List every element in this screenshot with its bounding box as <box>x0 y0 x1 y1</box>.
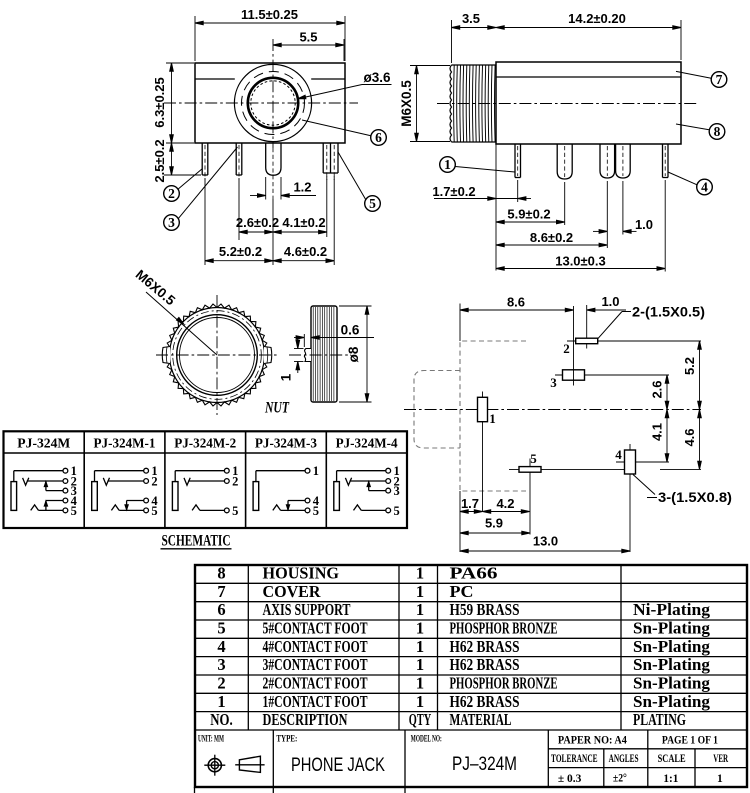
PJ-324M-4 jack schematic <box>334 464 400 518</box>
PJ-324M-2 jack schematic <box>172 464 238 518</box>
svg-text:PHOSPHOR BRONZE: PHOSPHOR BRONZE <box>450 674 558 693</box>
svg-text:PHOSPHOR BRONZE: PHOSPHOR BRONZE <box>450 619 558 638</box>
svg-text:6: 6 <box>217 600 225 619</box>
svg-text:2#CONTACT FOOT: 2#CONTACT FOOT <box>263 674 368 693</box>
front view: dimension 2.5±0.2 <box>152 139 201 182</box>
svg-text:NO.: NO. <box>210 710 232 729</box>
svg-text:±2°: ±2° <box>613 773 627 785</box>
svg-text:MODEL NO:: MODEL NO: <box>411 735 442 745</box>
svg-text:PJ-324M: PJ-324M <box>17 436 70 451</box>
BOM row 4: 4#CONTACT FOOT <box>217 637 710 656</box>
side view: dimension 13.0±0.3 <box>496 254 665 271</box>
side view: housing body <box>496 62 681 144</box>
svg-text:1: 1 <box>279 373 294 381</box>
front view: dimension 6.3±0.25 <box>152 63 194 143</box>
svg-text:1: 1 <box>416 600 424 619</box>
title block: first angle projection symbol <box>204 755 225 776</box>
svg-text:0.6: 0.6 <box>341 323 360 338</box>
svg-text:5: 5 <box>151 504 157 518</box>
side view: dimension 1.0 (pin gap) <box>593 217 653 233</box>
svg-text:2: 2 <box>563 341 570 356</box>
side view: centerline <box>437 103 697 105</box>
svg-text:14.2±0.20: 14.2±0.20 <box>568 11 626 26</box>
svg-text:PJ–324M: PJ–324M <box>452 754 517 775</box>
svg-text:1: 1 <box>416 692 424 711</box>
svg-text:TYPE:: TYPE: <box>276 735 297 745</box>
pcb layout: dimension 5.2 <box>682 341 701 410</box>
svg-text:PC: PC <box>450 582 474 601</box>
pcb layout: centerline <box>404 409 701 411</box>
svg-text:4.6: 4.6 <box>682 428 697 446</box>
pcb layout: dimension 2.6 <box>650 375 669 410</box>
svg-text:2.5±0.2: 2.5±0.2 <box>152 139 167 182</box>
pcb layout: dimension 13.0 <box>460 534 630 553</box>
title block: model cell PJ-324M <box>411 735 517 776</box>
nut front view: M6X0.5 label with leader <box>133 267 217 355</box>
svg-text:DESCRIPTION: DESCRIPTION <box>263 710 348 729</box>
svg-text:8: 8 <box>714 124 721 139</box>
front view: dimensions 2.6±0.2 and 4.1±0.2 <box>205 176 334 265</box>
svg-text:5: 5 <box>313 504 319 518</box>
svg-text:5.5: 5.5 <box>299 30 317 45</box>
front view: label ø3.6 with leader <box>298 70 392 99</box>
svg-text:3: 3 <box>217 655 225 674</box>
svg-text:2: 2 <box>217 674 225 693</box>
svg-text:± 0.3: ± 0.3 <box>558 773 582 785</box>
svg-text:11.5±0.25: 11.5±0.25 <box>241 7 298 22</box>
front view: centerlines <box>164 39 358 148</box>
svg-text:H59 BRASS: H59 BRASS <box>450 600 520 619</box>
svg-text:5.9±0.2: 5.9±0.2 <box>507 207 550 222</box>
svg-text:5.9: 5.9 <box>485 516 503 531</box>
svg-text:MATERIAL: MATERIAL <box>450 710 512 729</box>
title block: view cone symbol <box>235 756 264 772</box>
side view: balloon 1 (1#contact foot) <box>440 157 515 173</box>
svg-text:PHONE JACK: PHONE JACK <box>291 755 385 776</box>
pcb layout: pad 3 <box>550 306 669 390</box>
svg-text:1: 1 <box>416 564 424 583</box>
svg-text:QTY: QTY <box>409 710 431 729</box>
svg-text:5: 5 <box>71 504 77 518</box>
svg-text:2: 2 <box>232 475 238 489</box>
BOM table grid <box>195 565 747 787</box>
svg-text:2.6±0.2: 2.6±0.2 <box>236 215 279 230</box>
svg-text:PJ-324M-1: PJ-324M-1 <box>94 436 156 451</box>
svg-text:Sn-Plating: Sn-Plating <box>633 655 711 674</box>
svg-text:PJ-324M-3: PJ-324M-3 <box>255 436 317 451</box>
side view: dimension M6X0.5 <box>399 66 450 142</box>
svg-text:COVER: COVER <box>263 582 322 601</box>
svg-text:4: 4 <box>615 447 622 462</box>
pcb layout: dimension 4.1 <box>650 410 669 463</box>
svg-text:1#CONTACT FOOT: 1#CONTACT FOOT <box>263 692 368 711</box>
svg-text:1: 1 <box>416 582 424 601</box>
side view: pin 1 (1#contact foot) <box>515 144 521 202</box>
svg-text:TOLERANCE: TOLERANCE <box>551 753 598 765</box>
svg-text:H62 BRASS: H62 BRASS <box>450 692 520 711</box>
side view: pin 4 rounded <box>616 144 631 235</box>
front view: balloon 6 (axis support) <box>302 120 386 145</box>
front view: barrel circles (axis support ring) <box>234 64 311 141</box>
pcb layout: dashed component outline <box>414 341 526 491</box>
svg-text:1: 1 <box>717 773 723 785</box>
front view: balloon 3 <box>164 147 238 230</box>
nut front view: thread relief notches <box>162 347 272 364</box>
svg-text:7: 7 <box>217 582 225 601</box>
svg-text:NUT: NUT <box>264 400 289 417</box>
svg-text:13.0: 13.0 <box>533 534 558 549</box>
svg-text:Sn-Plating: Sn-Plating <box>633 674 711 693</box>
svg-text:8.6: 8.6 <box>507 295 525 310</box>
pcb layout: dimension 8.6 <box>460 295 574 342</box>
side view: threaded bushing M6 <box>450 65 496 142</box>
svg-text:2: 2 <box>151 475 157 489</box>
svg-text:PAPER NO: A4: PAPER NO: A4 <box>558 735 627 747</box>
svg-text:AXIS SUPPORT: AXIS SUPPORT <box>263 600 351 619</box>
front view: center shield pin <box>266 143 281 199</box>
BOM row 2: 2#CONTACT FOOT <box>217 674 710 693</box>
svg-text:3.5: 3.5 <box>462 11 480 26</box>
side view: pin 3 rounded <box>600 144 615 248</box>
pcb layout: pad 5 <box>509 451 624 535</box>
svg-text:1: 1 <box>489 411 496 426</box>
svg-text:8: 8 <box>217 564 225 583</box>
svg-text:UNIT: MM: UNIT: MM <box>198 735 224 745</box>
nut front view: knurled ring <box>166 304 268 406</box>
pcb layout: dimension 4.2 <box>483 496 530 513</box>
svg-text:1: 1 <box>416 674 424 693</box>
pcb layout: note 2-(1.5X0.5) with leader <box>598 305 705 339</box>
title block: type cell PHONE JACK <box>276 735 385 777</box>
nut side view: centerline <box>289 354 349 356</box>
front view: dimensions 5.2±0.2 and 4.6±0.2 <box>205 244 334 263</box>
svg-text:4: 4 <box>217 637 225 656</box>
svg-text:1.0: 1.0 <box>635 217 653 232</box>
front view: dimension 1.2 (shield pin width) <box>250 177 316 200</box>
front view: dimension 5.5 <box>273 30 344 62</box>
svg-text:4.1: 4.1 <box>650 423 665 441</box>
svg-text:2: 2 <box>168 186 175 201</box>
BOM row 5: 5#CONTACT FOOT <box>217 619 710 638</box>
svg-text:2-(1.5X0.5): 2-(1.5X0.5) <box>632 305 705 320</box>
svg-text:6.3±0.25: 6.3±0.25 <box>152 77 167 128</box>
side view: pin 2 rounded <box>557 144 572 225</box>
svg-text:5: 5 <box>530 451 537 466</box>
svg-text:VER: VER <box>713 753 728 765</box>
svg-text:1.0: 1.0 <box>601 294 619 309</box>
svg-text:1.7±0.2: 1.7±0.2 <box>432 184 475 199</box>
svg-text:1.7: 1.7 <box>461 496 479 511</box>
nut side view: knurled body <box>311 306 337 402</box>
svg-text:Sn-Plating: Sn-Plating <box>633 692 711 711</box>
BOM row 7: COVER <box>217 582 473 601</box>
nut side view: thread notch <box>304 349 311 362</box>
front view: balloon 2 <box>164 169 203 202</box>
svg-text:1: 1 <box>416 655 424 674</box>
pcb layout: pad 4 <box>615 444 669 552</box>
svg-text:8.6±0.2: 8.6±0.2 <box>530 230 573 245</box>
pcb layout: note 3-(1.5X0.8) with leader <box>633 475 732 506</box>
front view: balloon 5 <box>338 152 380 211</box>
svg-text:5: 5 <box>393 504 399 518</box>
front view: jack housing body <box>195 63 345 143</box>
svg-text:6: 6 <box>375 130 382 145</box>
svg-text:PJ-324M-2: PJ-324M-2 <box>174 436 236 451</box>
svg-text:3#CONTACT FOOT: 3#CONTACT FOOT <box>263 655 368 674</box>
pcb layout: dimension 5.9 <box>460 516 530 535</box>
PJ-324M-1 jack schematic <box>92 464 159 518</box>
BOM row 6: AXIS SUPPORT <box>217 600 710 619</box>
svg-text:4.6±0.2: 4.6±0.2 <box>284 244 327 259</box>
side view: dimension 8.6±0.2 <box>496 230 607 247</box>
svg-text:5: 5 <box>232 504 238 518</box>
side view: balloon 8 (housing) <box>676 124 725 140</box>
svg-text:5: 5 <box>217 619 225 638</box>
svg-text:1:1: 1:1 <box>663 773 678 785</box>
svg-text:5.2: 5.2 <box>682 357 697 375</box>
nut front view: centerlines <box>156 295 278 415</box>
svg-text:3: 3 <box>168 215 175 230</box>
nut side view: dimension 1 (notch height) <box>279 337 304 381</box>
title block: unit cell <box>198 735 224 745</box>
svg-text:Ni-Plating: Ni-Plating <box>633 600 711 619</box>
svg-text:H62 BRASS: H62 BRASS <box>450 637 520 656</box>
svg-text:1: 1 <box>313 464 319 478</box>
side view: pin 5 (right) <box>663 144 669 272</box>
svg-text:4#CONTACT FOOT: 4#CONTACT FOOT <box>263 637 368 656</box>
svg-text:PAGE 1 OF 1: PAGE 1 OF 1 <box>662 735 718 747</box>
side view: left extension line <box>495 144 497 271</box>
PJ-324M jack schematic <box>11 464 78 518</box>
pcb layout: dimension 1.7 <box>460 491 483 552</box>
svg-text:ANGLES: ANGLES <box>609 753 639 765</box>
schematic table grid <box>4 431 408 528</box>
svg-text:5: 5 <box>369 196 376 211</box>
pcb layout: dimension 1.0 <box>587 294 626 312</box>
BOM row 1: 1#CONTACT FOOT <box>217 692 710 711</box>
side view: dimension 14.2±0.20 <box>496 11 681 60</box>
side view: dimension 5.9±0.2 <box>496 207 565 224</box>
svg-text:4.1±0.2: 4.1±0.2 <box>282 215 325 230</box>
BOM row 3: 3#CONTACT FOOT <box>217 655 710 674</box>
svg-text:Sn-Plating: Sn-Plating <box>633 619 711 638</box>
svg-text:13.0±0.3: 13.0±0.3 <box>555 254 606 269</box>
svg-text:4: 4 <box>701 180 708 195</box>
svg-text:ø3.6: ø3.6 <box>363 70 391 85</box>
svg-text:SCALE: SCALE <box>658 753 686 765</box>
svg-text:5#CONTACT FOOT: 5#CONTACT FOOT <box>263 619 368 638</box>
SCHEMATIC caption <box>161 533 232 550</box>
svg-text:5.2±0.2: 5.2±0.2 <box>219 244 262 259</box>
front view: pin 3 <box>236 143 242 180</box>
svg-text:3: 3 <box>550 375 557 390</box>
svg-text:PA66: PA66 <box>450 564 498 583</box>
svg-text:3: 3 <box>393 484 399 498</box>
svg-text:1: 1 <box>416 619 424 638</box>
BOM row NO.: DESCRIPTION <box>210 710 686 729</box>
side view: balloon 4 <box>668 172 712 195</box>
front view: dimension 11.5±0.25 <box>195 7 345 61</box>
PJ-324M-3 jack schematic <box>253 464 320 518</box>
front view: pin 5 pair (right) <box>323 143 338 180</box>
BOM row 8: HOUSING <box>217 564 497 583</box>
svg-text:PJ-324M-4: PJ-324M-4 <box>336 436 398 451</box>
pcb layout: pad 1 <box>478 392 496 512</box>
svg-text:ø8: ø8 <box>346 346 361 362</box>
svg-text:M6X0.5: M6X0.5 <box>399 80 414 127</box>
svg-text:3-(1.5X0.8): 3-(1.5X0.8) <box>658 490 732 505</box>
svg-text:2.6: 2.6 <box>650 380 665 398</box>
svg-text:PLATING: PLATING <box>633 710 686 729</box>
svg-text:HOUSING: HOUSING <box>263 564 340 583</box>
front view: pin 2 (leftmost) <box>202 143 208 180</box>
svg-text:Sn-Plating: Sn-Plating <box>633 637 711 656</box>
svg-text:4.2: 4.2 <box>496 496 514 511</box>
svg-text:1: 1 <box>444 157 451 172</box>
side view: balloon 7 (cover) <box>676 71 727 87</box>
svg-text:1: 1 <box>217 692 225 711</box>
svg-text:SCHEMATIC: SCHEMATIC <box>162 533 231 550</box>
pcb layout: dimension 4.6 <box>660 410 701 470</box>
side view: dimension 3.5 <box>452 11 497 63</box>
nut side view: dimension 0.6 <box>294 323 374 348</box>
side view: dimension 1.7±0.2 <box>432 184 531 200</box>
title block grid <box>195 730 748 793</box>
nut side view: dimension ø8 <box>339 306 372 402</box>
svg-text:7: 7 <box>716 72 723 87</box>
svg-text:H62 BRASS: H62 BRASS <box>450 655 520 674</box>
svg-text:1: 1 <box>416 637 424 656</box>
svg-text:1.2: 1.2 <box>293 180 311 195</box>
pcb layout: pad 2 <box>563 305 701 356</box>
